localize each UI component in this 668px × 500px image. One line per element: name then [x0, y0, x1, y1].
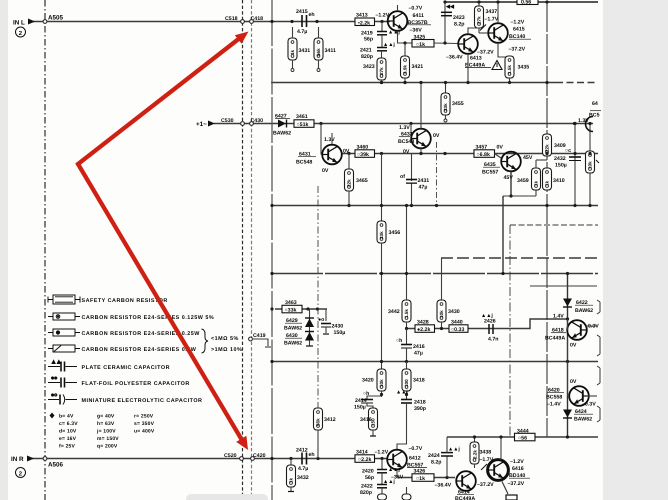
svg-text:▲▲j: ▲▲j: [388, 467, 400, 473]
resistor 3461: [294, 120, 314, 128]
legend plate ceramic capacitor: [48, 360, 77, 372]
resistor 3428: [415, 325, 435, 333]
resistor 0.56 on top rail: [517, 0, 538, 5]
resistor 3425: [412, 40, 434, 48]
svg-text:1.4V: 1.4V: [553, 314, 564, 320]
svg-text:–36V: –36V: [410, 28, 423, 34]
svg-text:33k: 33k: [379, 231, 384, 239]
legend miniature electrolytic capacitor: [48, 393, 77, 405]
wire Q6411 emitter: [398, 31, 413, 43]
junction x272/rail361: [270, 360, 273, 363]
wire red shaft: [78, 38, 243, 442]
wire x567.5 vertical: [567, 274, 569, 438]
red arrowhead top: [235, 32, 249, 44]
svg-text:BC557: BC557: [482, 170, 498, 176]
legend safety carbon resistor: [48, 295, 80, 304]
svg-text:●●: ●●: [51, 376, 57, 382]
svg-text:▲▲j: ▲▲j: [448, 447, 460, 453]
wire rail y=153.5: [342, 153, 598, 155]
svg-text:BAW62: BAW62: [284, 341, 302, 347]
resistor 3432: [290, 459, 292, 466]
resistor 3416: [367, 403, 373, 408]
svg-text:3444: 3444: [517, 428, 529, 434]
svg-text:3460: 3460: [357, 145, 369, 151]
svg-text:2421: 2421: [360, 48, 372, 54]
svg-text:s= 350V: s= 350V: [134, 421, 155, 427]
svg-text:1.3V: 1.3V: [578, 118, 589, 124]
wire x406.5 vertical: [406, 206, 408, 301]
svg-text:BC558: BC558: [546, 395, 562, 401]
svg-text:○51k: ○51k: [297, 122, 309, 128]
svg-text:27k: 27k: [477, 16, 482, 24]
svg-text:b= 4V: b= 4V: [59, 414, 74, 420]
svg-text:2422: 2422: [361, 484, 373, 490]
red arrowhead bottom: [236, 436, 248, 450]
dash-dot line x=272: [271, 0, 273, 500]
diode 6427: [278, 120, 286, 128]
svg-text:2418: 2418: [414, 400, 426, 406]
svg-text:of: of: [400, 174, 405, 180]
capacitor 2412: [289, 457, 292, 460]
junction x272 bottom: [270, 457, 273, 460]
svg-text:eh: eh: [309, 452, 315, 458]
junction 3423/rail: [380, 81, 383, 84]
svg-text:○39k: ○39k: [357, 152, 369, 158]
resistor 3409: [543, 134, 552, 156]
svg-text:–37.2V: –37.2V: [509, 47, 526, 53]
svg-text:3431: 3431: [299, 48, 311, 54]
resistor 3422 bottom cut: [406, 487, 408, 494]
svg-text:○1k: ○1k: [416, 42, 425, 48]
svg-text:○c: ○c: [565, 148, 571, 154]
legend flat-foil polyester capacitor: [48, 376, 77, 388]
svg-text:▲▲: ▲▲: [51, 360, 61, 366]
capacitor 2431: [411, 154, 413, 206]
svg-text:56p: 56p: [365, 475, 374, 481]
svg-text:3421: 3421: [412, 64, 424, 70]
svg-text:3426: 3426: [414, 469, 426, 475]
resistor 3455: [445, 83, 447, 94]
resistor 3410: [543, 168, 552, 190]
svg-text:C420: C420: [253, 453, 266, 459]
svg-text:1.5k: 1.5k: [404, 309, 409, 318]
svg-text:2424: 2424: [428, 453, 440, 459]
svg-text:10k: 10k: [379, 379, 384, 387]
arrow IN R: [27, 456, 34, 462]
transistor Q6418: [567, 320, 587, 340]
box bottom cut: [506, 495, 517, 500]
svg-text:45V: 45V: [504, 175, 514, 181]
resistor 3465: [347, 152, 350, 155]
svg-text:2430: 2430: [332, 324, 344, 330]
svg-text:C419: C419: [253, 333, 266, 339]
svg-text:–1.4V: –1.4V: [547, 402, 561, 408]
junction 3408/rail: [588, 152, 591, 155]
svg-text:SAFETY CARBON RESISTOR: SAFETY CARBON RESISTOR: [82, 298, 168, 304]
resistor 3442: [402, 300, 411, 322]
svg-text:g= 40V: g= 40V: [97, 414, 115, 420]
svg-text:47µ: 47µ: [419, 185, 428, 191]
svg-text:A506: A506: [48, 462, 64, 469]
svg-text:3455: 3455: [452, 101, 464, 107]
right gray strip: [603, 0, 668, 500]
svg-text:3425: 3425: [414, 35, 426, 41]
diode 6424: [563, 410, 572, 418]
svg-text:2416: 2416: [413, 344, 425, 350]
v x=510 box edge: [509, 225, 511, 437]
svg-text:0V: 0V: [570, 379, 577, 385]
diode 6429: [309, 309, 311, 346]
transistor Q6414: [456, 471, 476, 491]
svg-text:56k: 56k: [316, 418, 321, 426]
node 2 circle top: [16, 27, 26, 37]
svg-text:BC548: BC548: [398, 139, 414, 145]
resistor 3457: [474, 150, 495, 158]
svg-text:d= 10V: d= 10V: [59, 429, 77, 435]
wire IN L main y=21.5: [29, 21, 390, 23]
svg-text:A505: A505: [48, 15, 64, 22]
svg-text:0.56: 0.56: [521, 0, 531, 6]
wire Q6411 collector stub: [397, 5, 399, 11]
capacitor 2430: [318, 309, 327, 321]
svg-text:–1.7V: –1.7V: [485, 17, 499, 23]
svg-text:6416: 6416: [512, 466, 524, 472]
svg-text:3440: 3440: [451, 320, 463, 326]
resistor 3421: [403, 41, 406, 44]
capacitor 2419: [381, 22, 383, 32]
svg-text:FLAT-FOIL POLYESTER CAPACITOR: FLAT-FOIL POLYESTER CAPACITOR: [82, 381, 190, 387]
svg-text:◀◀: ◀◀: [445, 4, 455, 10]
svg-text:–0.7V: –0.7V: [409, 446, 423, 452]
arrow IN L: [28, 19, 35, 25]
wire Q6413 emitter: [467, 54, 469, 83]
svg-text:1.3V: 1.3V: [399, 125, 410, 131]
svg-text:1.5k: 1.5k: [507, 65, 512, 74]
resistor 3408 right: [589, 124, 591, 152]
capacitor 2424: [445, 476, 448, 479]
svg-text:2412: 2412: [296, 448, 308, 454]
capacitor 2423: [441, 11, 452, 13]
transistor Q6433 cut at edge: [586, 117, 593, 132]
svg-text:10k: 10k: [588, 161, 593, 169]
bottom tooltip bar: [186, 494, 268, 500]
svg-text:22k: 22k: [545, 144, 550, 152]
svg-text:–0.3V: –0.3V: [582, 402, 596, 408]
resistor 3456: [377, 221, 386, 243]
transistor Q6431: [320, 124, 322, 155]
svg-text:q= 200V: q= 200V: [97, 444, 118, 450]
svg-text:1.3V: 1.3V: [324, 137, 335, 143]
resistor 3414: [355, 455, 375, 463]
svg-text:○1k: ○1k: [416, 476, 425, 482]
resistor 3413: [355, 18, 375, 26]
svg-text:150µ: 150µ: [555, 163, 567, 169]
wire x381.5: [381, 154, 383, 222]
resistor 3431: [288, 38, 297, 60]
wire x445 vertical: [444, 2, 446, 43]
dashed box edge x436.5: [436, 142, 438, 206]
svg-text:○33k: ○33k: [285, 308, 297, 314]
svg-text:2.2k: 2.2k: [473, 450, 478, 459]
resistor 3437: [478, 2, 480, 6]
svg-text:PLATE CERAMIC CAPACITOR: PLATE CERAMIC CAPACITOR: [82, 365, 170, 371]
transistor Q6412: [380, 457, 383, 460]
wire Q6432 emitter: [420, 149, 422, 154]
capacitor 2420: [381, 459, 383, 470]
transistor Q6416: [487, 459, 509, 481]
dashed line x=251.5: [251, 0, 253, 500]
svg-text:56p: 56p: [364, 37, 373, 43]
svg-text:○56: ○56: [518, 436, 527, 442]
svg-text:8.2p: 8.2p: [454, 22, 465, 28]
transistor Q6411: [380, 20, 383, 23]
resistor 3440: [449, 325, 468, 333]
wire rail y=328.5: [407, 319, 568, 329]
svg-text:3409: 3409: [554, 143, 566, 149]
svg-text:150µ: 150µ: [354, 405, 366, 411]
node 2 circle bottom: [16, 468, 26, 478]
svg-text:BC5: BC5: [589, 113, 600, 119]
svg-text:0V: 0V: [403, 149, 410, 155]
wire top rail y=2: [445, 1, 598, 3]
resistor 3424 bottom cut: [381, 488, 383, 494]
svg-text:c= 6.3V: c= 6.3V: [59, 421, 78, 427]
svg-text:10k: 10k: [439, 310, 444, 318]
resistor 3412: [314, 408, 323, 430]
wire C530 y=123.5: [214, 123, 593, 125]
svg-text:BC449A: BC449A: [455, 496, 475, 500]
svg-text:u= 400V: u= 400V: [134, 429, 155, 435]
svg-text:CARBON RESISTOR E24-SERIES 0.: CARBON RESISTOR E24-SERIES 0.5W: [82, 347, 197, 353]
svg-text:C518: C518: [225, 16, 238, 22]
svg-text:▲▲j: ▲▲j: [388, 30, 400, 36]
svg-text:+1~: +1~: [196, 121, 207, 128]
svg-text:●○: ●○: [51, 393, 57, 399]
svg-text:e= 16V: e= 16V: [59, 436, 77, 442]
svg-text:MINIATURE ELECTROLYTIC CAPACIT: MINIATURE ELECTROLYTIC CAPACITOR: [82, 398, 203, 404]
svg-text:2431: 2431: [418, 178, 430, 184]
resistor 3460: [355, 150, 375, 158]
legend carbon resistor 0.5W: [48, 345, 80, 352]
svg-text:3.9k: 3.9k: [403, 65, 408, 74]
svg-text:3438: 3438: [480, 450, 492, 456]
transistor Q6420: [569, 386, 589, 406]
legend brace: [202, 329, 209, 353]
legend carbon resistor 0.125W: [48, 313, 80, 320]
svg-text:▲▲j: ▲▲j: [383, 42, 395, 48]
svg-text:eh: eh: [309, 12, 315, 18]
svg-text:0V: 0V: [570, 343, 577, 349]
svg-text:C520: C520: [224, 453, 237, 459]
wire C419 stub: [252, 339, 268, 346]
svg-text:BAW62: BAW62: [575, 308, 593, 314]
svg-text:1k: 1k: [289, 477, 294, 483]
capacitor 2426: [488, 324, 490, 334]
dash-dot line x=318: [317, 186, 319, 408]
capacitor 2421: [381, 35, 383, 48]
svg-text:–1.2V: –1.2V: [511, 20, 525, 26]
resistor 3420: [377, 369, 386, 391]
wire Q6435 emitter: [510, 172, 512, 197]
junction x272/rail205: [270, 204, 273, 207]
svg-text:3411: 3411: [325, 48, 336, 54]
svg-text:3410: 3410: [553, 178, 565, 184]
svg-text:3456: 3456: [389, 230, 401, 236]
svg-text:6411: 6411: [413, 13, 424, 19]
svg-text:3423: 3423: [363, 64, 375, 70]
transistor Q6435: [501, 152, 521, 172]
wire x503 down: [502, 196, 504, 274]
diode 6422: [563, 299, 572, 307]
svg-text:3432: 3432: [297, 475, 309, 481]
left gray strip: [0, 0, 8, 500]
junction x272/rail273: [270, 272, 273, 275]
dash-dot border x=45: [44, 0, 46, 500]
svg-text:f= 25V: f= 25V: [59, 444, 76, 450]
svg-text:3430: 3430: [448, 309, 460, 315]
svg-text:45V: 45V: [523, 155, 533, 161]
junction 3421/rail: [403, 81, 406, 84]
capacitor 2418: [401, 399, 412, 401]
svg-text:2415: 2415: [296, 9, 308, 15]
svg-text:○0.33: ○0.33: [451, 327, 464, 333]
svg-text:27k: 27k: [379, 67, 384, 75]
wire Q6416 collector: [500, 437, 502, 460]
resistor 3463: [282, 305, 302, 313]
wire y196: [503, 195, 536, 197]
svg-text:–36.4V: –36.4V: [446, 55, 463, 61]
svg-text:m= 150V: m= 150V: [97, 436, 119, 442]
svg-text:●o: ●o: [318, 317, 324, 323]
svg-text:100: 100: [404, 379, 409, 387]
transistor Q6415: [488, 23, 508, 43]
wire y286: [530, 285, 597, 287]
svg-text:○6.8k: ○6.8k: [477, 152, 490, 158]
svg-text:BC548: BC548: [296, 160, 312, 166]
svg-text:3437: 3437: [486, 9, 498, 15]
svg-text:0V: 0V: [497, 145, 504, 151]
resistor 3426: [412, 474, 434, 482]
svg-text:3457: 3457: [476, 145, 488, 151]
wire rail y=361.5: [271, 361, 598, 363]
svg-text:4.7n: 4.7n: [488, 337, 499, 343]
svg-text:8.2p: 8.2p: [431, 460, 442, 466]
svg-text:4.7µ: 4.7µ: [298, 466, 308, 472]
svg-text:▲▲j: ▲▲j: [383, 479, 395, 485]
svg-text:2432: 2432: [554, 156, 566, 162]
svg-text:–36.4V: –36.4V: [435, 483, 452, 489]
svg-text:64: 64: [592, 101, 598, 107]
capacitor 2416: [406, 329, 408, 345]
svg-text:BC449A: BC449A: [545, 336, 565, 342]
resistor 3435: [505, 56, 514, 78]
svg-text:3416: 3416: [360, 417, 372, 423]
resistor 3418: [406, 362, 408, 370]
svg-text:1k: 1k: [290, 49, 295, 55]
svg-text:47µ: 47µ: [414, 351, 423, 357]
wire bottom amp y=477.5: [398, 477, 455, 479]
svg-text:○h: ○h: [363, 391, 369, 397]
junction x547/rail82: [545, 81, 548, 84]
svg-text:22k: 22k: [347, 179, 352, 187]
wire Q6418 out: [567, 340, 569, 362]
svg-text:1k: 1k: [534, 180, 539, 186]
svg-text:2414: 2414: [355, 398, 367, 404]
svg-text:h= 63V: h= 63V: [97, 421, 115, 427]
svg-text:▲▲j: ▲▲j: [481, 313, 493, 319]
resistor 3459: [535, 190, 537, 196]
svg-text:3461: 3461: [296, 114, 308, 120]
svg-text:–37.2V: –37.2V: [477, 482, 494, 488]
capacitor 2422: [381, 473, 383, 484]
svg-text:CARBON RESISTOR E24-SERIES 0.: CARBON RESISTOR E24-SERIES 0.125W 5%: [82, 315, 215, 321]
warning triangle: [492, 61, 502, 70]
svg-text:○2.2k: ○2.2k: [358, 457, 371, 463]
svg-text:–1.2V: –1.2V: [510, 459, 524, 465]
bracket edges right: [597, 300, 600, 314]
svg-text:j= 100V: j= 100V: [96, 429, 116, 435]
wire rail y=436: [447, 436, 598, 438]
svg-text:6415: 6415: [513, 27, 525, 33]
resistor 3444: [515, 433, 536, 441]
capacitor 2432: [574, 124, 576, 206]
svg-text:6412: 6412: [409, 456, 421, 462]
legend carbon resistor 0.25W: [48, 329, 80, 336]
wire rail y=273.5: [271, 273, 598, 275]
svg-text:3413: 3413: [356, 13, 368, 19]
svg-text:1k: 1k: [545, 180, 550, 186]
svg-text:3414: 3414: [356, 450, 368, 456]
v x=547: [546, 2, 548, 437]
svg-text:3418: 3418: [413, 378, 425, 384]
svg-text:820p: 820p: [360, 490, 372, 496]
junction x272 top: [270, 20, 273, 23]
svg-text:IN L: IN L: [13, 20, 25, 27]
svg-text:BAW62: BAW62: [284, 326, 302, 332]
svg-text:3465: 3465: [356, 178, 368, 184]
transistor Q6413: [458, 34, 478, 54]
svg-text:4.7µ: 4.7µ: [297, 29, 307, 35]
wire Q6415 emitter: [498, 43, 510, 57]
svg-text:820p: 820p: [361, 54, 373, 60]
svg-text:●2.2k: ●2.2k: [417, 327, 430, 333]
node A506: [43, 457, 47, 461]
box top edge y=225: [510, 224, 598, 226]
resistor 3438: [474, 437, 476, 442]
svg-text:390p: 390p: [414, 406, 426, 412]
svg-text:3442: 3442: [388, 309, 400, 315]
svg-text:0V: 0V: [322, 168, 329, 174]
svg-text:2423: 2423: [453, 15, 465, 21]
svg-text:3435: 3435: [518, 65, 530, 71]
svg-text:>1MΩ 10%: >1MΩ 10%: [211, 347, 242, 353]
svg-text:3459: 3459: [517, 178, 529, 184]
wire rail y=205.5: [271, 205, 598, 207]
svg-text:3428: 3428: [417, 320, 429, 326]
transistor Q6432: [409, 122, 412, 125]
wire Q6432 collector: [420, 83, 422, 129]
svg-text:2426: 2426: [484, 319, 496, 325]
svg-text:–1.2V: –1.2V: [375, 450, 389, 456]
svg-text:3420: 3420: [362, 378, 374, 384]
svg-text:–37.2V: –37.2V: [508, 481, 525, 487]
svg-text:56k: 56k: [316, 48, 321, 56]
capacitor 2415: [290, 20, 293, 23]
legend voltage code table: [50, 413, 55, 419]
wire mid 309: [275, 308, 327, 310]
svg-text:3463: 3463: [285, 300, 297, 306]
wire to Q6413 base: [434, 42, 458, 45]
